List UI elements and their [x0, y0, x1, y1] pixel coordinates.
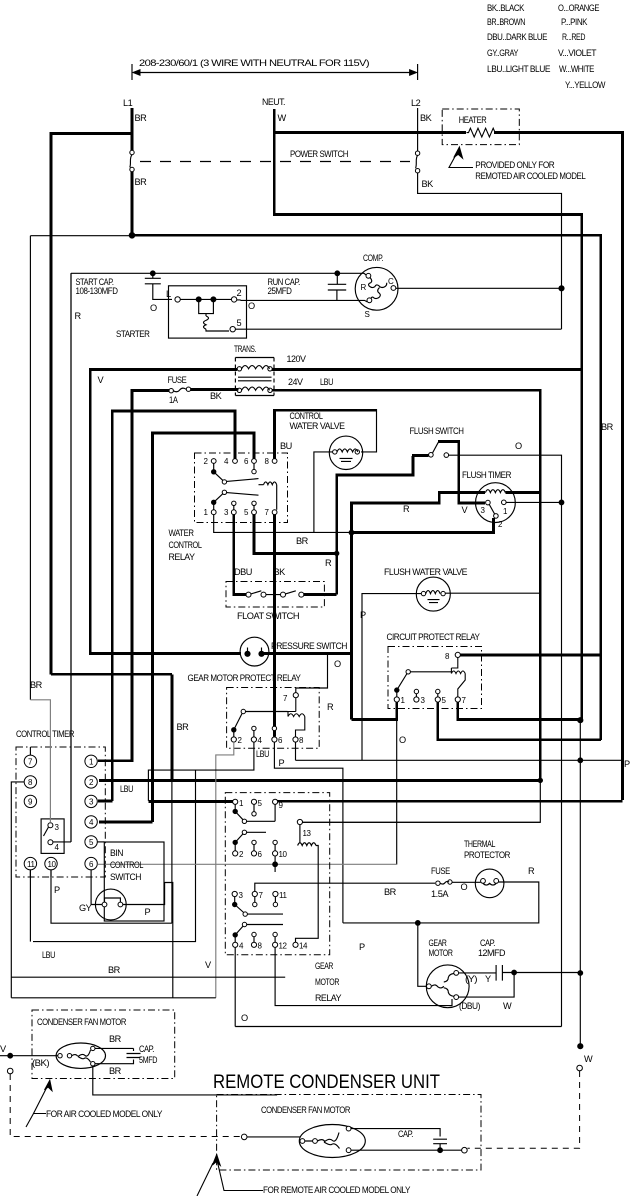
svg-text:O: O: [399, 735, 406, 745]
svg-text:REMOTE CONDENSER UNIT: REMOTE CONDENSER UNIT: [213, 1071, 440, 1093]
wire FWV left P drop: [362, 594, 421, 761]
wire motor lower out: [93, 1066, 277, 1095]
svg-text:P: P: [624, 759, 630, 769]
svg-text:BR: BR: [177, 722, 190, 732]
GMPR terminal 2: [231, 737, 236, 742]
wire timer 11 drop: [29, 870, 31, 942]
svg-text:BR: BR: [384, 887, 397, 897]
svg-text:LBU: LBU: [120, 784, 133, 794]
svg-text:THERMAL: THERMAL: [464, 839, 495, 849]
wire starter 2 to compressor S: [237, 300, 367, 302]
svg-text:L1: L1: [123, 98, 133, 108]
svg-text:R: R: [75, 311, 82, 321]
wire WCR8 to control water valve: [275, 410, 377, 458]
wire P thin run to bus D: [296, 759, 622, 761]
bin control switch box: [104, 842, 164, 921]
gear motor relay box: [225, 793, 329, 955]
svg-text:O: O: [461, 882, 468, 892]
timer terminal 1: [85, 755, 97, 767]
GMPR moving contact: [232, 728, 236, 732]
WCR moving contact upper: [212, 470, 216, 474]
svg-text:FLUSH WATER VALVE: FLUSH WATER VALVE: [384, 567, 467, 577]
wire 120V primary left V-line: [90, 369, 241, 653]
wire thin left drop from L1: [30, 236, 132, 700]
wire LBU down to timer 11: [33, 770, 196, 942]
wire WCR5 R to float switch right riser: [254, 515, 337, 554]
svg-text:P: P: [54, 885, 60, 895]
dashed V line to remote: [10, 1074, 241, 1137]
wire starter 5 bottom rail: [235, 328, 561, 330]
timer cam contact 3: [48, 823, 53, 828]
svg-text:BK: BK: [422, 179, 435, 189]
svg-text:11: 11: [279, 891, 287, 900]
GMPR terminal 6: [272, 737, 277, 742]
WCR stationary contact under 6: [252, 469, 256, 473]
water control relay box: [195, 453, 288, 523]
svg-text:LBU: LBU: [42, 950, 55, 960]
junction cap W: [512, 970, 517, 975]
WCR stationary contacts above 3 and 5: [232, 501, 236, 505]
svg-text:BR: BR: [135, 113, 148, 123]
wire CPR7 to dot on 581: [458, 702, 580, 719]
svg-text:L: L: [166, 289, 171, 299]
GMPR terminal 8: [293, 737, 298, 742]
svg-text:RELAY: RELAY: [169, 552, 195, 562]
svg-text:O: O: [150, 303, 157, 313]
wire ctl timer 3 link: [98, 800, 112, 803]
svg-text:120V: 120V: [287, 354, 307, 364]
wire timer 8 LBU left drop: [11, 782, 216, 998]
float switch box: [226, 582, 324, 608]
svg-text:LBU..LIGHT BLUE: LBU..LIGHT BLUE: [487, 64, 550, 74]
wire L2 to compressor box: [418, 173, 562, 329]
timer terminal 6: [85, 857, 97, 869]
transformer primary winding: [237, 367, 241, 371]
wire WCR1 thin to y532: [214, 515, 352, 533]
svg-text:W: W: [278, 113, 287, 123]
GMR terminal 14: [293, 942, 298, 947]
svg-text:O: O: [248, 301, 255, 311]
svg-text:CONTROL: CONTROL: [110, 860, 143, 870]
timer terminal 4: [85, 816, 97, 828]
svg-text:RELAY: RELAY: [315, 993, 341, 1003]
wire FWV right to bus A: [445, 592, 540, 594]
GMR row1 contact: [233, 809, 237, 813]
svg-text:DBU..DARK BLUE: DBU..DARK BLUE: [487, 32, 547, 42]
wire WCR4 feed: [112, 411, 235, 801]
svg-text:P...PINK: P...PINK: [561, 17, 588, 27]
svg-text:BK..BLACK: BK..BLACK: [487, 3, 525, 13]
timer terminal 9: [24, 795, 36, 807]
wire ctl timer 4 link: [99, 821, 153, 824]
wire BR riser from y674: [51, 674, 172, 780]
heater box: [442, 109, 519, 145]
svg-text:POWER SWITCH: POWER SWITCH: [290, 149, 348, 159]
CPR terminal 3: [414, 697, 419, 702]
svg-text:12MFD: 12MFD: [478, 948, 506, 958]
wire GMR1 feed: [148, 800, 233, 803]
CPR coil: [451, 658, 465, 698]
starter relay box: [169, 286, 247, 338]
junction P/581: [578, 758, 583, 763]
wire timer 6 gray to GMR10: [97, 863, 396, 865]
CPR stationary contacts: [414, 689, 418, 693]
svg-text:MOTOR: MOTOR: [429, 948, 454, 958]
svg-text:CONTROL: CONTROL: [290, 411, 323, 421]
svg-text:GEAR: GEAR: [429, 938, 448, 948]
wire timer1 to thin vert: [506, 501, 561, 503]
svg-text:BR: BR: [296, 536, 309, 546]
svg-text:WATER: WATER: [169, 528, 195, 538]
svg-text:R: R: [403, 504, 410, 514]
wire GMPR6 link: [274, 742, 343, 923]
svg-text:12: 12: [279, 942, 288, 951]
svg-text:BR..BROWN: BR..BROWN: [487, 17, 525, 27]
power switch L1 pole: [130, 150, 134, 154]
wire pressure riser to timer coil: [352, 493, 486, 720]
svg-text:(DBU): (DBU): [459, 1001, 480, 1011]
GMR terminal 7: [252, 891, 257, 896]
starter internal contacts: [180, 298, 231, 300]
svg-text:FUSE: FUSE: [168, 375, 187, 385]
wire BR bottom run: [11, 976, 285, 978]
svg-text:PROTECTOR: PROTECTOR: [464, 850, 511, 860]
wire 120V primary right to bus B: [272, 368, 580, 371]
svg-text:FLOAT SWITCH: FLOAT SWITCH: [237, 611, 299, 621]
wire WCR3 DBU to float switch: [234, 515, 246, 595]
svg-text:GEAR: GEAR: [315, 961, 334, 971]
junction gear motor feed: [415, 921, 420, 926]
heater resistor element: [467, 128, 498, 137]
wire CWV left lead down to y532: [314, 452, 333, 533]
wire GMR12 drop to motor: [275, 947, 452, 1005]
svg-text:SWITCH: SWITCH: [110, 872, 141, 882]
svg-text:BR: BR: [135, 177, 148, 187]
wire GMR13 thin right: [303, 821, 541, 823]
junction run cap: [335, 271, 340, 276]
svg-text:5MFD: 5MFD: [139, 1055, 158, 1065]
GMR terminal 11: [273, 891, 278, 896]
wire bin P out: [123, 883, 173, 998]
GMR terminal 6: [251, 851, 256, 856]
svg-text:BK: BK: [210, 391, 223, 401]
svg-text:L2: L2: [411, 98, 421, 108]
run capacitor: [328, 273, 346, 300]
svg-text:BR: BR: [601, 422, 614, 432]
timer terminal 5: [85, 836, 97, 848]
wire cap down to DBU terminal: [459, 973, 514, 998]
GMR row4 contact: [233, 933, 237, 937]
svg-text:CONTROL TIMER: CONTROL TIMER: [16, 729, 75, 739]
svg-text:C: C: [388, 277, 394, 286]
wire flush switch arm to timer 3: [438, 441, 485, 503]
svg-text:CIRCUIT PROTECT RELAY: CIRCUIT PROTECT RELAY: [387, 632, 480, 642]
timer terminal 11: [24, 857, 36, 869]
svg-text:W: W: [584, 1054, 593, 1064]
svg-text:GEAR MOTOR PROTECT RELAY: GEAR MOTOR PROTECT RELAY: [188, 673, 301, 683]
junction compressor C: [559, 286, 564, 291]
legend color codes: [487, 3, 606, 90]
svg-text:V...VIOLET: V...VIOLET: [558, 48, 597, 58]
wire WCR6 feed: [153, 433, 254, 822]
flush timer terminal 1: [502, 500, 507, 505]
svg-text:10: 10: [279, 850, 288, 859]
WCR coil: [259, 482, 277, 510]
wire red rail to cam 4: [53, 273, 71, 842]
svg-text:FLUSH TIMER: FLUSH TIMER: [462, 470, 512, 480]
wire GMR7 BR up to thermal line: [255, 883, 435, 891]
W node bottom right: [578, 1044, 583, 1049]
svg-text:O: O: [515, 441, 522, 451]
svg-text:CAP.: CAP.: [480, 938, 495, 948]
GMR terminal 12: [273, 942, 278, 947]
GMR terminal 4: [233, 942, 238, 947]
WCR moving contact lower: [212, 500, 216, 504]
svg-text:10: 10: [48, 860, 57, 869]
svg-text:BK: BK: [274, 567, 287, 577]
flush timer arm: [489, 505, 494, 515]
svg-text:W...WHITE: W...WHITE: [559, 64, 594, 74]
svg-text:O...ORANGE: O...ORANGE: [558, 3, 599, 13]
open terminal circle: [7, 1068, 13, 1074]
svg-text:FOR REMOTE AIR COOLED MODEL ON: FOR REMOTE AIR COOLED MODEL ONLY: [263, 1185, 410, 1195]
condenser fan motor: [56, 1043, 105, 1068]
timer terminal 3: [85, 795, 97, 807]
svg-text:MOTOR: MOTOR: [315, 977, 340, 987]
transformer core: [238, 377, 272, 381]
svg-text:108-130MFD: 108-130MFD: [76, 286, 119, 296]
CPR terminal 7: [455, 697, 460, 702]
wire timer 10 to L1 riser: [51, 870, 172, 923]
svg-text:13: 13: [303, 829, 312, 838]
wire flush switch feed: [412, 454, 429, 457]
start capacitor: [145, 273, 172, 299]
GMR coil: [296, 825, 319, 943]
svg-text:PRESSURE SWITCH: PRESSURE SWITCH: [271, 641, 347, 651]
svg-text:S: S: [365, 310, 370, 319]
svg-text:P: P: [279, 758, 285, 768]
remote condenser unit box: [217, 1095, 481, 1171]
svg-text:CAP.: CAP.: [398, 1129, 413, 1139]
svg-text:BU: BU: [280, 441, 292, 451]
timer terminal 10: [45, 857, 57, 869]
svg-text:R: R: [361, 283, 367, 292]
GMR row2 contact: [233, 840, 237, 844]
wire remote motor top to cap: [351, 1129, 447, 1151]
svg-text:LBU: LBU: [320, 377, 333, 387]
svg-text:Y...YELLOW: Y...YELLOW: [565, 80, 606, 90]
wire timer 2 to junction: [352, 518, 494, 532]
starter coil: [204, 316, 230, 331]
timer cam box: [41, 819, 64, 854]
wire WCR7 BK down to GMPR6: [273, 515, 276, 737]
svg-text:P: P: [145, 907, 151, 917]
run capacitor 12MFD: [459, 965, 514, 981]
float switch contacts: [246, 592, 251, 597]
wire busB thin lower: [579, 720, 581, 1046]
wire CPR8 to bus C: [460, 654, 600, 657]
power switch dashed link: [140, 161, 410, 163]
svg-text:P: P: [360, 610, 366, 620]
GMPR R wire up-right: [296, 654, 328, 693]
svg-text:LBU: LBU: [256, 749, 269, 759]
wire fuse left to x132 drop to timer 1: [98, 391, 169, 761]
svg-text:W: W: [503, 1001, 512, 1011]
wire GMR9 to bus D: [278, 800, 623, 803]
wire flush switch right O thin: [449, 455, 562, 1026]
power switch L2 pole: [415, 151, 419, 155]
GMPR stationary contacts: [252, 726, 256, 730]
flush timer terminal 3: [486, 500, 491, 505]
svg-text:24V: 24V: [288, 377, 304, 387]
junction start cap: [150, 271, 155, 276]
wire compressor C out: [396, 287, 562, 289]
wire GMPR2 P gray drop: [216, 742, 234, 998]
svg-text:WATER VALVE: WATER VALVE: [290, 421, 345, 431]
svg-text:R: R: [327, 702, 334, 712]
flush timer coil: [485, 490, 505, 493]
wire R riser float to flush switch: [337, 456, 413, 595]
wire L1 lower: [131, 172, 134, 236]
wire cap to busB thin: [514, 972, 580, 974]
dashed W to remote unit: [468, 1071, 580, 1148]
compressor windings: [369, 278, 387, 299]
wire pressure to CPR1: [352, 702, 397, 720]
wire fuse right to transformer: [191, 388, 238, 392]
timer terminal 7: [24, 755, 36, 767]
junction timer1: [559, 500, 564, 505]
svg-text:PROVIDED ONLY FOR: PROVIDED ONLY FOR: [475, 160, 555, 170]
svg-text:NEUT.: NEUT.: [262, 97, 285, 107]
transformer box dashed sides: [235, 358, 274, 396]
junction R riser / WCR5: [335, 551, 339, 555]
bin switch: [95, 889, 126, 920]
svg-text:BR: BR: [109, 1066, 122, 1076]
CPR moving contact: [395, 688, 399, 692]
svg-text:CONDENSER FAN MOTOR: CONDENSER FAN MOTOR: [261, 1105, 351, 1115]
wire L1 top loop to left bus: [51, 133, 132, 674]
svg-text:11: 11: [27, 860, 35, 869]
svg-text:BR: BR: [108, 965, 121, 975]
svg-text:BK: BK: [420, 113, 433, 123]
wire remote motor bottom: [351, 1149, 462, 1151]
svg-text:CAP.: CAP.: [139, 1044, 154, 1054]
svg-text:FLUSH SWITCH: FLUSH SWITCH: [410, 426, 464, 436]
timer cam contact 4: [48, 840, 53, 845]
svg-text:O: O: [241, 1013, 248, 1023]
svg-text:(Y): (Y): [465, 974, 477, 984]
svg-text:CONDENSER FAN MOTOR: CONDENSER FAN MOTOR: [37, 1017, 127, 1027]
starter coil links: [199, 299, 214, 316]
svg-text:(BK): (BK): [32, 1058, 49, 1068]
svg-text:2: 2: [237, 288, 242, 298]
svg-text:CONTROL: CONTROL: [169, 540, 202, 550]
GMR terminal 13: [297, 819, 302, 824]
wire gear motor left feed: [418, 923, 427, 986]
wire GMR4 O drop: [235, 947, 561, 1026]
svg-text:FOR AIR COOLED MODEL ONLY: FOR AIR COOLED MODEL ONLY: [46, 1109, 162, 1119]
svg-text:R: R: [325, 558, 332, 568]
wire TP right loop to gear motor: [343, 882, 539, 923]
GMR row3 contact: [233, 902, 237, 906]
svg-text:FUSE: FUSE: [431, 866, 450, 876]
junction L1/y235: [129, 233, 135, 239]
wire gray to cam 3: [30, 700, 50, 823]
remote fan motor: [299, 1125, 365, 1158]
wire GMPR8 P stub: [295, 742, 297, 760]
svg-text:BR: BR: [30, 680, 43, 690]
wire fuse to TP: [452, 881, 481, 883]
CPR terminal 1: [394, 697, 399, 702]
GMR terminal 5: [251, 799, 256, 804]
GMR terminal 10: [273, 851, 278, 856]
timer terminal 8: [24, 776, 36, 788]
svg-text:O: O: [334, 659, 341, 669]
svg-text:STARTER: STARTER: [116, 329, 150, 339]
wire L1 main feed y235 to bus C: [132, 235, 601, 740]
timer terminal 2: [85, 776, 97, 788]
svg-text:COMP.: COMP.: [363, 253, 383, 263]
condenser fan motor box (air cooled): [32, 1010, 175, 1079]
wire L1 drop: [131, 108, 134, 150]
GMR terminal 8: [251, 942, 256, 947]
wire pressure switch right: [264, 652, 352, 655]
transformer secondary winding: [237, 388, 241, 392]
junction bus A corner: [538, 778, 542, 782]
GMPR terminal 4: [251, 737, 256, 742]
GMR terminal 9: [273, 799, 278, 804]
svg-text:HEATER: HEATER: [459, 115, 487, 125]
svg-text:5: 5: [237, 318, 242, 328]
dimension note 208-230/60/1: [132, 58, 418, 80]
svg-text:R: R: [528, 866, 535, 876]
starter top rail wire to compressor R: [71, 273, 368, 842]
wire timer 5 to bin box: [97, 841, 104, 843]
svg-text:GY..GRAY: GY..GRAY: [487, 48, 518, 58]
wire NEUT drop: [274, 109, 582, 719]
svg-text:GY: GY: [79, 903, 92, 913]
GMR terminal 3: [232, 891, 237, 896]
arrow to heater box: [449, 152, 473, 168]
wire thin busA lower to GMR13: [302, 780, 540, 822]
svg-text:Y: Y: [485, 974, 491, 984]
svg-text:TRANS.: TRANS.: [234, 344, 256, 354]
svg-text:R...RED: R...RED: [562, 32, 586, 42]
open terminal + feed: [241, 1134, 247, 1140]
wire timer 6 down to bin switch: [91, 870, 102, 905]
wire 24V secondary right bus A: [99, 390, 540, 780]
flush timer terminal 2: [494, 514, 499, 519]
wire GMR10 stub + junction gray: [274, 856, 276, 872]
svg-text:1A: 1A: [169, 395, 179, 405]
CPR terminal 5: [435, 697, 440, 702]
GMR terminal 1: [233, 799, 238, 804]
svg-text:BR: BR: [109, 1034, 122, 1044]
GMR terminal 2: [233, 851, 238, 856]
wire GMPR4 LBU link: [148, 742, 254, 801]
svg-text:DBU: DBU: [234, 567, 252, 577]
wire O thin below CPR1: [396, 720, 398, 865]
svg-text:14: 14: [299, 942, 308, 951]
svg-text:REMOTED AIR COOLED MODEL: REMOTED AIR COOLED MODEL: [475, 171, 585, 181]
junction CPR7/busB: [578, 718, 583, 723]
GMPR coil: [288, 698, 305, 737]
wire L2 drop: [417, 108, 419, 151]
svg-text:208-230/60/1 (3 WIRE WITH NEUT: 208-230/60/1 (3 WIRE WITH NEUTRAL FOR 11…: [139, 58, 370, 68]
svg-text:BIN: BIN: [110, 848, 123, 858]
svg-text:P: P: [359, 942, 365, 952]
svg-text:25MFD: 25MFD: [268, 286, 293, 296]
